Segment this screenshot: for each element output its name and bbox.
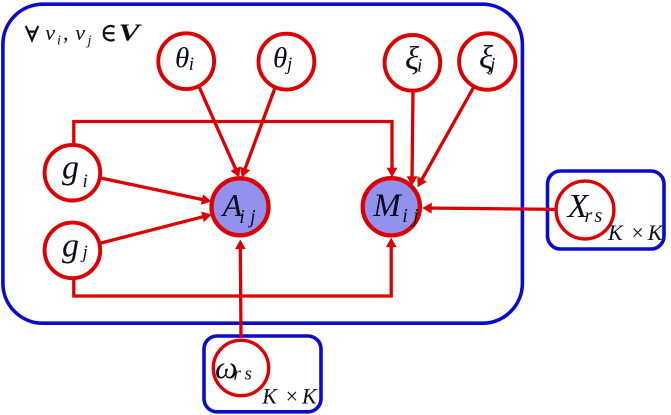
svg-text:V: V <box>119 20 143 46</box>
svg-text:i: i <box>402 205 408 227</box>
label K x K (X plate) <box>607 220 664 245</box>
label g_i <box>62 150 88 193</box>
edge g_j -> A_ij <box>101 212 212 243</box>
wire from g_i top corner -> M_ij (top polyline) <box>74 122 398 178</box>
svg-text:,: , <box>63 20 69 45</box>
node X_rs <box>556 181 614 239</box>
label K x K (omega plate) <box>261 384 318 409</box>
svg-text:i: i <box>57 34 61 49</box>
label X_rs <box>566 188 603 227</box>
node xi_j <box>459 33 515 89</box>
svg-text:v: v <box>45 20 55 45</box>
node g_j <box>45 223 101 279</box>
svg-text:i: i <box>83 171 88 192</box>
label theta_i <box>175 42 194 75</box>
svg-text:i: i <box>417 56 422 77</box>
svg-text:i: i <box>239 206 245 228</box>
svg-text:g: g <box>62 228 79 265</box>
node omega_rs <box>213 340 268 395</box>
svg-text:K: K <box>647 220 664 245</box>
svg-text:s: s <box>245 364 252 385</box>
node M_ij (observed, filled) <box>363 178 420 235</box>
node A_ij (observed, filled) <box>212 178 269 235</box>
svg-text:j: j <box>86 34 92 49</box>
edge omega_rs -> A_ij <box>235 240 246 338</box>
svg-text:K: K <box>261 384 278 409</box>
svg-text:θ: θ <box>273 42 287 74</box>
label omega_rs <box>215 349 252 385</box>
plate: outer rounded box (for all v_i, v_j in V) <box>3 4 523 323</box>
edge xi_j -> M_ij <box>417 88 473 188</box>
svg-text:θ: θ <box>175 42 189 74</box>
svg-text:r: r <box>585 205 593 227</box>
node g_i <box>45 145 101 201</box>
node xi_i <box>385 35 441 91</box>
label g_j <box>62 228 88 265</box>
label xi_i <box>405 41 422 77</box>
svg-text:M: M <box>372 188 402 224</box>
edge g_i -> A_ij <box>101 178 211 205</box>
svg-text:K: K <box>607 220 624 245</box>
wire from g_j bottom corner -> M_ij (bottom polyline) <box>74 238 397 296</box>
edge X_rs -> M_ij <box>422 203 556 214</box>
svg-text:K: K <box>301 384 318 409</box>
node theta_j <box>259 34 315 90</box>
svg-text:r: r <box>234 364 242 385</box>
node theta_i <box>158 33 214 89</box>
label A_ij <box>221 187 256 228</box>
svg-text:s: s <box>595 205 603 227</box>
label xi_j <box>479 40 495 76</box>
plate: K x K box around X_rs (right) <box>548 171 665 249</box>
svg-text:×: × <box>630 220 645 245</box>
label: for all v_i, v_j in script-V (plate index, top-left) <box>26 20 142 49</box>
label M_ij <box>372 188 419 227</box>
edge theta_j -> A_ij <box>240 87 276 178</box>
edge theta_i -> A_ij <box>199 86 241 178</box>
svg-text:g: g <box>62 150 79 187</box>
svg-text:v: v <box>75 20 85 45</box>
label theta_j <box>273 42 292 75</box>
plate: K x K box around omega_rs (bottom) <box>204 336 321 412</box>
svg-text:×: × <box>284 384 299 409</box>
svg-text:i: i <box>189 54 194 75</box>
edge xi_i -> M_ij <box>407 91 418 186</box>
